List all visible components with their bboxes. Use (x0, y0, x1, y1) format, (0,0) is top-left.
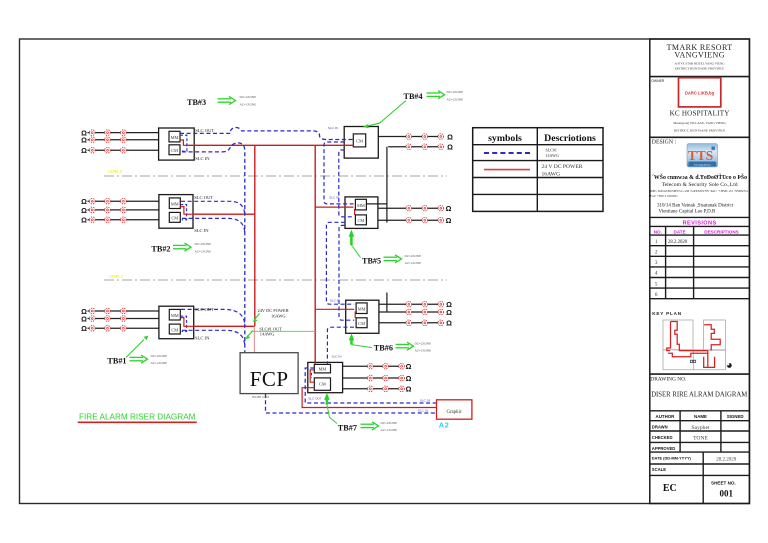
svg-text:Ω: Ω (81, 197, 87, 206)
svg-text:CM: CM (319, 382, 326, 387)
wire SLC U7 out loop to Graphic (305, 368, 436, 403)
svg-text:AZ=1ZONE: AZ=1ZONE (447, 97, 464, 101)
arrow TB#6 to U6 (350, 339, 353, 345)
svg-text:LEVEL 3: LEVEL 3 (108, 169, 122, 173)
svg-text:DISTRICT HUNTSANE PROVINCE: DISTRICT HUNTSANE PROVINCE (675, 67, 724, 71)
svg-text:SIGNED: SIGNED (727, 414, 744, 419)
smoke detector loop M4 row2 (343, 377, 402, 379)
wire 24V U7 internal loop (310, 370, 314, 382)
smoke detector loop G1 row3 (88, 327, 159, 329)
svg-text:310/14 Ban Vatnak ,Sisatanak D: 310/14 Ban Vatnak ,Sisatanak District (657, 204, 734, 209)
svg-text:24V DC POWER: 24V DC POWER (258, 308, 289, 313)
smoke detector loop G3 row2 (88, 139, 159, 141)
svg-text:DISER RIRE ALRAM DAIGRAM: DISER RIRE ALRAM DAIGRAM (651, 389, 747, 398)
svg-text:SLC IN: SLC IN (332, 355, 342, 359)
svg-text:AZ=1ZONE: AZ=1ZONE (240, 102, 257, 106)
svg-text:FIRE ALARM RISER DIAGRAM: FIRE ALARM RISER DIAGRAM (79, 412, 196, 422)
arrow TB#1 to U1 (126, 340, 144, 358)
wire 24V U5 internal MM-CM (354, 209, 356, 215)
svg-text:Graphic: Graphic (446, 410, 461, 415)
svg-text:24 V DC POWER: 24 V DC POWER (542, 164, 583, 170)
svg-text:SLC 03: SLC 03 (420, 399, 431, 403)
svg-text:MM: MM (358, 307, 366, 312)
smoke detector loop R-BOT row3 (379, 322, 441, 324)
svg-text:SHEET NO.: SHEET NO. (711, 480, 736, 485)
svg-text:EC: EC (663, 483, 677, 494)
svg-text:CM: CM (171, 148, 178, 153)
revisions column lines (665, 226, 667, 298)
svg-text:RS485 COM: RS485 COM (252, 395, 270, 399)
svg-text:DRAWN: DRAWN (652, 424, 668, 429)
wire 24V riser 2 (to U7) (314, 145, 316, 364)
svg-text:Fax: +856 21350951: Fax: +856 21350951 (650, 194, 678, 198)
wire SLC U1 in arc (182, 330, 245, 347)
revisions row 2 line (650, 255, 750, 257)
svg-text:AUTHOR: AUTHOR (656, 414, 676, 419)
divider (650, 76, 750, 78)
svg-text:Ω: Ω (81, 136, 87, 145)
smoke detector loop G1 row1 (88, 310, 159, 312)
svg-text:Ω: Ω (447, 132, 453, 141)
arrow TB#7 to U7 (326, 398, 329, 404)
svg-text:TONE: TONE (693, 436, 708, 442)
svg-text:14AWG: 14AWG (546, 153, 559, 158)
smoke detector loop G1 row2 (88, 318, 159, 320)
key plan north symbol (727, 363, 732, 368)
red underline (78, 421, 197, 423)
wire 24V branch to U1 (194, 325, 255, 327)
smoke detector loop R-BOT row2 (379, 311, 441, 313)
svg-text:SLC 01: SLC 01 (418, 408, 429, 412)
svg-text:MM: MM (171, 202, 179, 207)
svg-text:AZ=1ZONE: AZ=1ZONE (405, 261, 422, 265)
svg-text:Ω: Ω (446, 308, 452, 317)
svg-text:symbols: symbols (488, 133, 522, 144)
svg-text:VANGVIENG: VANGVIENG (674, 50, 725, 59)
svg-text:TB#1: TB#1 (107, 357, 126, 366)
wire 24V power top horizontal G3 to U4 (188, 144, 353, 146)
smoke detector loop G2 row1 (88, 200, 159, 202)
module U6 (MM/CM) for TB#6 (346, 300, 379, 333)
legend SLC sample (484, 152, 530, 154)
riser wire R-MID to R-BOT (initiating) (386, 293, 388, 313)
svg-text:A FIVE STAR HOTEL VANG VIENG: A FIVE STAR HOTEL VANG VIENG (675, 62, 726, 66)
svg-text:Ω: Ω (81, 314, 87, 323)
svg-text:DRAWING NO.: DRAWING NO. (650, 377, 686, 383)
wire 24V riser 1 (to FCP / G1) (254, 145, 256, 326)
svg-text:DARC LIKB,bg: DARC LIKB,bg (685, 91, 715, 96)
svg-text:28.2.2020: 28.2.2020 (668, 240, 688, 245)
svg-text:A2: A2 (439, 420, 450, 429)
svg-text:Descriotions: Descriotions (544, 133, 596, 144)
svg-text:DESCRIPTIONS: DESCRIPTIONS (704, 229, 738, 234)
svg-text:Telecom & Security Sole Co.,Lt: Telecom & Security Sole Co.,Ltd (662, 182, 738, 188)
svg-text:SLC IN: SLC IN (195, 156, 210, 161)
svg-text:DZ=2ZONE: DZ=2ZONE (195, 242, 212, 246)
smoke detector loop G2 row3 (88, 219, 159, 221)
svg-text:Ω: Ω (81, 324, 87, 333)
svg-text:DZ=2ZONE: DZ=2ZONE (240, 95, 257, 99)
svg-text:Ω: Ω (406, 385, 412, 394)
wire 24V branch to U5 MM (315, 206, 353, 208)
arrow to 24V riser (255, 314, 260, 320)
svg-text:DZ=2ZONE: DZ=2ZONE (415, 341, 432, 345)
legend table (473, 128, 603, 212)
svg-text:Ω: Ω (446, 216, 452, 225)
svg-text:28.2.2020: 28.2.2020 (716, 458, 737, 463)
smoke detector loop G2 row2 (88, 209, 159, 211)
revisions row 3 line (650, 266, 750, 268)
module U7 (MM/CM) for TB#7 (308, 362, 343, 392)
svg-text:Ω: Ω (447, 143, 453, 152)
riser wire R-TOP to R-MID (initiating) (386, 147, 388, 223)
svg-text:Ω: Ω (81, 146, 87, 155)
wire SLC U3 MM out (top horizontal) with hop (180, 127, 353, 139)
svg-text:TB#4: TB#4 (404, 92, 423, 101)
svg-text:SLC OUT: SLC OUT (195, 128, 214, 133)
green underline SLC#1 OUT (251, 330, 317, 332)
wire 24V U7 to Graphic panel (302, 388, 437, 408)
revisions row 1 line (650, 245, 750, 247)
wire 24V power U2 internal jog (180, 207, 193, 215)
svg-text:SLC IN: SLC IN (328, 126, 338, 130)
svg-text:TB#6: TB#6 (374, 344, 393, 353)
level line lower (dash-dot) (104, 279, 447, 281)
key plan grid (663, 320, 693, 350)
smoke detector loop R-MID row1 (378, 207, 441, 209)
svg-text:NO.: NO. (654, 229, 662, 234)
smoke detector loop M4 row1 (343, 365, 402, 367)
wire SLC U3 in -> riser A (182, 143, 245, 353)
svg-text:CM: CM (356, 138, 363, 143)
wire SLC U4-U5 branch a (324, 142, 354, 204)
FCP fire control panel (240, 353, 298, 394)
svg-text:CM: CM (171, 216, 178, 221)
divider (650, 136, 750, 138)
revisions row 5 line (650, 287, 750, 289)
svg-text:Ω: Ω (81, 206, 87, 215)
wire 24V feed into FCP (thin) (253, 326, 255, 352)
svg-text:DATE (DD-MM-YYYY): DATE (DD-MM-YYYY) (652, 456, 692, 461)
wire SLC FCP to Graphic (266, 394, 437, 413)
wire R-MID MM stub (366, 203, 387, 205)
wire 24V branch to U2 (193, 213, 255, 215)
svg-text:LEVEL 2: LEVEL 2 (109, 274, 123, 278)
svg-text:TB#2: TB#2 (151, 244, 170, 253)
legend 24V sample (484, 169, 530, 171)
wire SLC U3 inner loop (180, 135, 187, 151)
wire 24V power U1 internal jog (180, 318, 193, 327)
smoke detector loop R-BOT row1 (379, 303, 441, 305)
divider (650, 216, 750, 218)
wire SLC U2 in arc (182, 218, 245, 234)
svg-text:SLC OUT: SLC OUT (308, 397, 322, 401)
svg-text:Ω: Ω (446, 204, 452, 213)
svg-text:MM: MM (171, 135, 179, 140)
svg-text:16AWG: 16AWG (271, 314, 286, 319)
svg-text:SLC IN: SLC IN (330, 299, 340, 303)
module U3 (MM/CM) for TB#3 (159, 128, 195, 160)
svg-text:DZ=2ZONE: DZ=2ZONE (405, 254, 422, 258)
svg-text:CM: CM (357, 218, 364, 223)
svg-text:SLC OUT: SLC OUT (194, 195, 213, 200)
svg-text:Ω: Ω (446, 319, 452, 328)
svg-text:CHECKED: CHECKED (652, 435, 673, 440)
svg-text:SLC IN: SLC IN (194, 228, 209, 233)
wire SLC U7 inner stub (311, 373, 313, 378)
Graphic workstation box (437, 400, 472, 419)
module U1 (MM/CM) for TB#1 (159, 306, 194, 339)
smoke detector loop R-TOP row1 (378, 136, 441, 138)
level line upper (dash-dot) (104, 175, 447, 177)
module U4 (CM) for TB#4 (344, 127, 378, 159)
svg-text:AZ=1ZONE: AZ=1ZONE (415, 349, 432, 353)
smoke detector loop R-MID row2 (378, 219, 441, 221)
svg-text:FCP: FCP (250, 367, 289, 391)
svg-text:DZ=2ZONE: DZ=2ZONE (447, 90, 464, 94)
svg-text:001: 001 (720, 489, 734, 499)
wire SLC U2 out arc to riser A (181, 201, 245, 216)
svg-text:TTS: TTS (688, 148, 714, 163)
svg-text:CM: CM (358, 321, 365, 326)
divider (650, 410, 750, 412)
svg-text:Ω: Ω (406, 362, 412, 371)
revisions row 4 line (650, 277, 750, 279)
svg-text:AZ=1ZONE: AZ=1ZONE (151, 361, 168, 365)
smoke detector loop G3 row1 (88, 132, 159, 134)
smoke detector loop R-TOP row2 (388, 146, 441, 148)
wire SLC U4-U5 branch b (339, 150, 354, 217)
svg-text:TB#5: TB#5 (362, 256, 381, 265)
svg-text:AZ=1ZONE: AZ=1ZONE (195, 249, 212, 253)
svg-text:DZ=2ZONE: DZ=2ZONE (151, 354, 168, 358)
svg-text:SCALE: SCALE (652, 467, 666, 472)
smoke detector loop M4 row3 (343, 388, 402, 390)
svg-text:DZ=2ZONE: DZ=2ZONE (381, 421, 398, 425)
svg-text:Technology Solution: Technology Solution (694, 163, 711, 166)
smoke detector loop G3 row3 (88, 149, 159, 151)
module U2 (MM/CM) for TB#2 (159, 195, 193, 229)
arrow TB#4 to U4 (368, 101, 406, 126)
author table columns (679, 411, 681, 452)
svg-text:Ω: Ω (406, 374, 412, 383)
wire 24V U6 internal MM-CM (354, 312, 356, 319)
svg-text:MM: MM (171, 313, 179, 318)
svg-text:KEY PLAN: KEY PLAN (652, 311, 682, 316)
wire SLC U1 inner loop (180, 316, 186, 331)
svg-text:DATE: DATE (674, 229, 686, 234)
arrow to SLC riser (248, 331, 253, 337)
divider (650, 373, 750, 375)
svg-text:NAME: NAME (694, 414, 707, 419)
svg-text:TB#7: TB#7 (338, 423, 357, 432)
wire SLC U5-U6 branch b (339, 225, 354, 320)
svg-text:16AWG: 16AWG (542, 171, 561, 177)
revisions row 6 line (650, 298, 750, 300)
arrow TB#5 to U5 (350, 236, 353, 246)
svg-text:Ω: Ω (81, 216, 87, 225)
svg-text:AZ=1ZONE: AZ=1ZONE (381, 428, 398, 432)
svg-text:MM: MM (318, 367, 326, 372)
wire SLC U2 inner loop (180, 205, 186, 220)
svg-text:DESIGN :: DESIGN : (652, 139, 677, 145)
key plan stair squares (690, 360, 692, 362)
svg-text:KC HOSPITALITY: KC HOSPITALITY (670, 109, 730, 117)
wire SLC U6-U7 riser (327, 327, 354, 364)
key plan building outline (red) (667, 322, 720, 368)
wire SLC U5-U6 branch a (326, 222, 354, 304)
svg-text:APPROVED: APPROVED (652, 446, 676, 451)
svg-text:SLC#1: SLC#1 (546, 148, 557, 153)
wire 24V branch to U6 MM (315, 308, 354, 310)
svg-text:MM: MM (357, 203, 365, 208)
svg-text:SLC IN: SLC IN (329, 196, 339, 200)
svg-text:Vientiane Capital Lao P.D.R: Vientiane Capital Lao P.D.R (659, 210, 716, 215)
owner logo red box (679, 78, 721, 107)
wire 24V power U3 internal jog (180, 140, 189, 145)
svg-text:CM: CM (171, 327, 178, 332)
svg-text:Sayphet: Sayphet (691, 425, 709, 431)
wire SLC U1 out arc (181, 309, 245, 326)
svg-text:OWNER: OWNER (651, 79, 665, 83)
svg-text:SLC IN: SLC IN (195, 335, 210, 340)
svg-text:TB#3: TB#3 (187, 98, 206, 107)
svg-text:14AWG: 14AWG (260, 331, 275, 336)
title block outline (650, 39, 750, 504)
module U5 (MM/CM) for TB#5 (345, 197, 378, 229)
svg-text:´WŠo cnmwɔa & đ.ŦoĐoØŤƲco o ÞŠ: ´WŠo cnmwɔa & đ.ŦoĐoØŤƲco o ÞŠo (652, 173, 747, 181)
svg-text:Mb 02023058551-20 54336578 Tel: Mb 02023058551-20 54336578 Tel: +856 21 … (650, 189, 748, 193)
